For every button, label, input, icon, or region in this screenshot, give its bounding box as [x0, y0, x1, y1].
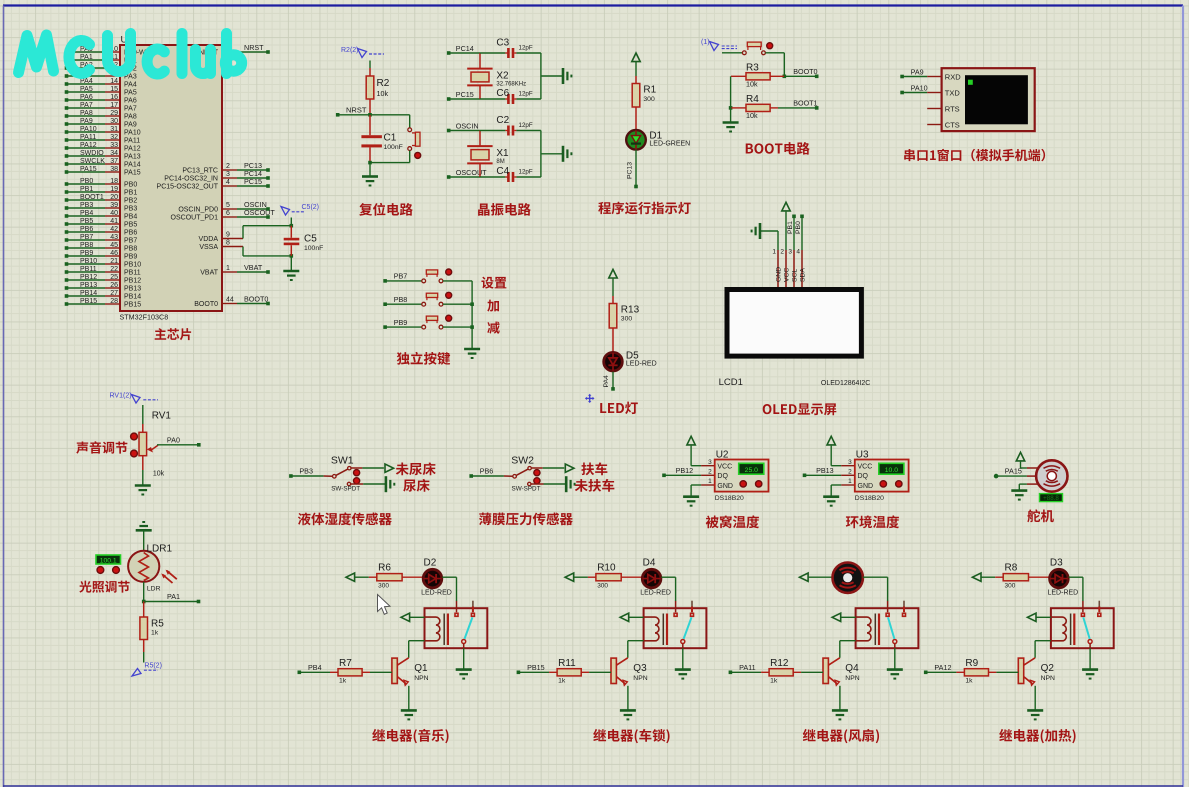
- svg-text:RV1(2): RV1(2): [110, 393, 132, 400]
- svg-text:41: 41: [110, 218, 118, 225]
- svg-text:PA15: PA15: [80, 166, 97, 173]
- svg-text:PA11: PA11: [739, 663, 756, 672]
- svg-text:PB1: PB1: [80, 186, 93, 193]
- svg-text:300: 300: [643, 96, 655, 103]
- svg-text:LED-RED: LED-RED: [421, 590, 452, 597]
- svg-text:PB10: PB10: [124, 262, 141, 269]
- svg-text:PA4: PA4: [124, 82, 137, 89]
- svg-text:PB14: PB14: [80, 290, 97, 297]
- svg-text:PB1: PB1: [124, 190, 137, 197]
- svg-text:NPN: NPN: [1041, 675, 1055, 682]
- svg-text:SW2: SW2: [511, 455, 534, 467]
- svg-text:44: 44: [226, 297, 234, 304]
- svg-text:PB14: PB14: [124, 294, 141, 301]
- svg-text:NRST: NRST: [244, 43, 264, 52]
- svg-text:C5(2): C5(2): [302, 204, 320, 211]
- svg-text:10.0: 10.0: [885, 467, 898, 474]
- svg-text:18: 18: [110, 178, 118, 185]
- svg-text:1k: 1k: [339, 677, 347, 684]
- svg-text:VBAT: VBAT: [244, 263, 263, 272]
- svg-text:PB9: PB9: [80, 250, 93, 257]
- svg-text:PB8: PB8: [80, 242, 93, 249]
- svg-text:PC15: PC15: [456, 90, 474, 99]
- svg-text:SW1: SW1: [331, 455, 354, 467]
- svg-text:R5(2): R5(2): [144, 663, 162, 670]
- svg-text:3: 3: [848, 459, 852, 466]
- svg-text:22: 22: [110, 266, 118, 273]
- svg-text:33: 33: [110, 142, 118, 149]
- svg-text:100.1: 100.1: [100, 558, 117, 565]
- svg-text:PA11: PA11: [80, 134, 96, 141]
- svg-text:PB4: PB4: [308, 663, 322, 672]
- svg-text:1: 1: [226, 265, 230, 272]
- svg-text:OSCIN: OSCIN: [456, 122, 479, 131]
- svg-text:PB4: PB4: [80, 210, 93, 217]
- svg-text:PB15: PB15: [527, 663, 545, 672]
- svg-text:2: 2: [226, 163, 230, 170]
- svg-text:19: 19: [110, 186, 118, 193]
- svg-text:PC13_RTC: PC13_RTC: [182, 168, 218, 175]
- svg-text:NPN: NPN: [633, 675, 647, 682]
- svg-text:42: 42: [110, 226, 118, 233]
- svg-text:9: 9: [226, 232, 230, 239]
- svg-text:2: 2: [848, 469, 852, 476]
- svg-text:RXD: RXD: [945, 72, 961, 81]
- svg-text:R2(2): R2(2): [341, 47, 359, 54]
- svg-text:OSCOUT: OSCOUT: [244, 208, 275, 217]
- svg-text:5: 5: [226, 202, 230, 209]
- svg-text:PB2: PB2: [124, 198, 137, 205]
- svg-text:45: 45: [110, 242, 118, 249]
- svg-text:PB11: PB11: [80, 266, 97, 273]
- svg-text:40: 40: [110, 210, 118, 217]
- svg-text:SW-SPDT: SW-SPDT: [331, 485, 360, 492]
- svg-text:300: 300: [597, 583, 608, 590]
- svg-text:GND: GND: [776, 267, 783, 282]
- svg-text:CTS: CTS: [945, 120, 960, 129]
- svg-text:C5: C5: [304, 234, 317, 245]
- svg-text:32: 32: [110, 134, 118, 141]
- svg-text:R13: R13: [621, 305, 640, 316]
- svg-text:3: 3: [708, 459, 712, 466]
- svg-text:BOOT0: BOOT0: [244, 295, 268, 304]
- svg-text:PA15: PA15: [1005, 467, 1022, 476]
- svg-text:OSCIN_PD0: OSCIN_PD0: [178, 207, 218, 214]
- svg-text:Q4: Q4: [845, 663, 859, 674]
- svg-text:PA8: PA8: [80, 110, 93, 117]
- svg-text:SWDIO: SWDIO: [80, 150, 104, 157]
- svg-text:C4: C4: [496, 166, 509, 177]
- svg-text:PA12: PA12: [934, 663, 951, 672]
- svg-text:PB0: PB0: [80, 178, 93, 185]
- svg-text:PB15: PB15: [124, 302, 141, 309]
- svg-text:VDDA: VDDA: [199, 236, 219, 243]
- svg-text:8: 8: [226, 240, 230, 247]
- svg-text:R3: R3: [746, 62, 759, 73]
- svg-text:34: 34: [110, 150, 118, 157]
- svg-text:25.0: 25.0: [745, 467, 758, 474]
- svg-text:OSCOUT_PD1: OSCOUT_PD1: [171, 215, 219, 222]
- svg-text:PB15: PB15: [80, 298, 97, 305]
- svg-text:PA7: PA7: [124, 106, 137, 113]
- svg-text:BOOT0: BOOT0: [793, 67, 817, 76]
- svg-text:43: 43: [110, 234, 118, 241]
- svg-text:VSSA: VSSA: [199, 244, 218, 251]
- svg-text:SWCLK: SWCLK: [80, 158, 105, 165]
- svg-text:PB12: PB12: [80, 274, 97, 281]
- svg-text:TXD: TXD: [945, 88, 961, 97]
- svg-text:21: 21: [110, 258, 118, 265]
- svg-text:6: 6: [226, 210, 230, 217]
- svg-text:STM32F103C8: STM32F103C8: [120, 313, 169, 322]
- svg-text:RV1: RV1: [152, 411, 172, 422]
- svg-text:PA9: PA9: [124, 122, 137, 129]
- svg-text:16: 16: [110, 94, 118, 101]
- svg-text:LDR1: LDR1: [147, 544, 173, 555]
- svg-text:PB6: PB6: [80, 226, 93, 233]
- svg-text:R11: R11: [558, 658, 576, 669]
- svg-text:Q2: Q2: [1041, 663, 1055, 674]
- svg-text:LCD1: LCD1: [719, 377, 743, 388]
- svg-text:12pF: 12pF: [519, 45, 533, 52]
- svg-text:PB11: PB11: [124, 270, 141, 277]
- svg-text:10k: 10k: [153, 471, 165, 478]
- svg-text:10k: 10k: [746, 111, 758, 120]
- svg-text:PC15-OSC32_OUT: PC15-OSC32_OUT: [157, 184, 219, 191]
- svg-text:X1: X1: [496, 148, 509, 159]
- svg-text:C1: C1: [384, 133, 397, 144]
- svg-text:R4: R4: [746, 94, 759, 105]
- svg-text:PB12: PB12: [676, 466, 694, 475]
- svg-text:2: 2: [780, 249, 784, 256]
- svg-text:BOOT1: BOOT1: [793, 99, 817, 108]
- svg-text:46: 46: [110, 250, 118, 257]
- svg-text:RTS: RTS: [945, 104, 960, 113]
- svg-text:30: 30: [110, 118, 118, 125]
- svg-text:PA0: PA0: [167, 435, 180, 444]
- svg-text:300: 300: [621, 316, 633, 323]
- svg-text:LED-RED: LED-RED: [640, 590, 671, 597]
- svg-text:14: 14: [110, 78, 118, 85]
- svg-text:PA8: PA8: [124, 114, 137, 121]
- svg-text:27: 27: [110, 290, 118, 297]
- svg-text:PB3: PB3: [80, 202, 93, 209]
- svg-text:PA14: PA14: [124, 162, 141, 169]
- svg-text:GND: GND: [858, 483, 874, 490]
- svg-text:32.768KHz: 32.768KHz: [496, 82, 526, 88]
- svg-text:VCC: VCC: [717, 464, 732, 471]
- svg-text:SDA: SDA: [800, 268, 807, 282]
- svg-text:PB6: PB6: [480, 467, 494, 476]
- svg-text:R8: R8: [1005, 563, 1018, 574]
- svg-text:12pF: 12pF: [519, 169, 533, 176]
- svg-text:U3: U3: [856, 450, 869, 461]
- svg-text:C6: C6: [496, 88, 509, 99]
- svg-text:PB8: PB8: [394, 295, 408, 304]
- svg-text:Q1: Q1: [414, 663, 428, 674]
- svg-text:PA9: PA9: [911, 67, 924, 76]
- svg-text:DQ: DQ: [717, 473, 728, 480]
- svg-text:NRST: NRST: [346, 106, 367, 115]
- svg-text:1k: 1k: [770, 677, 778, 684]
- svg-text:1k: 1k: [558, 677, 566, 684]
- svg-text:PA7: PA7: [80, 102, 93, 109]
- svg-text:PB13: PB13: [80, 282, 97, 289]
- svg-text:PA13: PA13: [124, 154, 141, 161]
- svg-text:GND: GND: [717, 483, 733, 490]
- svg-text:PB5: PB5: [80, 218, 93, 225]
- svg-text:R1: R1: [643, 85, 656, 96]
- svg-text:(1): (1): [701, 39, 710, 46]
- svg-text:PB12: PB12: [124, 278, 141, 285]
- svg-text:PA15: PA15: [124, 170, 141, 177]
- svg-text:+88.8: +88.8: [1043, 495, 1059, 502]
- svg-text:PB4: PB4: [124, 214, 137, 221]
- svg-text:25: 25: [110, 274, 118, 281]
- svg-text:8M: 8M: [496, 159, 504, 165]
- svg-text:PB6: PB6: [124, 230, 137, 237]
- svg-text:37: 37: [110, 158, 118, 165]
- svg-text:4: 4: [796, 249, 800, 256]
- svg-text:PB13: PB13: [816, 466, 834, 475]
- svg-text:PB5: PB5: [124, 222, 137, 229]
- svg-text:PB7: PB7: [394, 272, 408, 281]
- svg-text:PC15: PC15: [244, 177, 262, 186]
- svg-text:R2: R2: [377, 78, 390, 89]
- svg-text:PC13: PC13: [627, 162, 634, 179]
- svg-text:R10: R10: [597, 563, 616, 574]
- svg-text:PA6: PA6: [124, 98, 137, 105]
- svg-text:OLED12864I2C: OLED12864I2C: [821, 380, 870, 387]
- svg-text:PA1: PA1: [167, 592, 180, 601]
- svg-text:1: 1: [772, 249, 776, 256]
- svg-text:VCC: VCC: [858, 464, 873, 471]
- svg-text:PB10: PB10: [80, 258, 97, 265]
- svg-text:D4: D4: [643, 558, 656, 569]
- svg-text:LED-GREEN: LED-GREEN: [649, 141, 690, 148]
- svg-text:PC14: PC14: [456, 44, 474, 53]
- svg-text:PB1: PB1: [787, 221, 794, 234]
- svg-text:10k: 10k: [377, 89, 389, 98]
- svg-text:PB9: PB9: [124, 254, 137, 261]
- svg-text:31: 31: [110, 126, 118, 133]
- svg-text:1k: 1k: [965, 677, 973, 684]
- svg-text:BOOT1: BOOT1: [80, 194, 104, 201]
- svg-text:SCL: SCL: [792, 269, 799, 282]
- svg-text:12pF: 12pF: [519, 122, 533, 129]
- svg-text:PB3: PB3: [124, 206, 137, 213]
- svg-text:C2: C2: [496, 115, 509, 126]
- svg-text:1: 1: [708, 478, 712, 485]
- svg-text:28: 28: [110, 298, 118, 305]
- svg-text:20: 20: [110, 194, 118, 201]
- svg-text:PA11: PA11: [124, 138, 140, 145]
- svg-text:3: 3: [226, 171, 230, 178]
- svg-text:R9: R9: [965, 658, 978, 669]
- svg-text:PB0: PB0: [124, 182, 137, 189]
- svg-text:BOOT0: BOOT0: [194, 301, 218, 308]
- svg-text:PA6: PA6: [80, 94, 93, 101]
- svg-text:29: 29: [110, 110, 118, 117]
- svg-text:17: 17: [110, 102, 118, 109]
- svg-text:26: 26: [110, 282, 118, 289]
- svg-text:PB0: PB0: [795, 221, 802, 234]
- svg-text:1k: 1k: [151, 630, 159, 637]
- svg-text:12pF: 12pF: [519, 91, 533, 98]
- svg-text:PA12: PA12: [124, 146, 141, 153]
- svg-text:D2: D2: [424, 558, 437, 569]
- svg-text:Q3: Q3: [633, 663, 647, 674]
- svg-text:PA10: PA10: [911, 83, 928, 92]
- svg-text:PA1: PA1: [80, 54, 93, 61]
- svg-text:DQ: DQ: [858, 473, 869, 480]
- svg-text:39: 39: [110, 202, 118, 209]
- svg-text:PA9: PA9: [80, 118, 93, 125]
- svg-text:PB8: PB8: [124, 246, 137, 253]
- svg-text:300: 300: [378, 583, 389, 590]
- svg-text:PB7: PB7: [124, 238, 137, 245]
- svg-text:PA5: PA5: [124, 90, 137, 97]
- svg-text:PA10: PA10: [80, 126, 97, 133]
- svg-text:PA12: PA12: [80, 142, 97, 149]
- svg-text:PB9: PB9: [394, 318, 408, 327]
- svg-text:DS18B20: DS18B20: [855, 495, 884, 502]
- svg-text:100nF: 100nF: [384, 144, 403, 151]
- svg-text:4: 4: [226, 179, 230, 186]
- svg-text:100nF: 100nF: [304, 245, 323, 252]
- svg-text:SW-SPDT: SW-SPDT: [512, 485, 541, 492]
- svg-text:2: 2: [708, 469, 712, 476]
- svg-text:PB7: PB7: [80, 234, 93, 241]
- svg-text:DS18B20: DS18B20: [715, 495, 744, 502]
- svg-text:R7: R7: [339, 658, 352, 669]
- svg-text:PB13: PB13: [124, 286, 141, 293]
- svg-text:PA5: PA5: [80, 86, 93, 93]
- svg-text:R12: R12: [770, 658, 789, 669]
- svg-text:15: 15: [110, 86, 118, 93]
- svg-text:PB3: PB3: [299, 467, 313, 476]
- svg-text:LDR: LDR: [147, 586, 161, 593]
- svg-text:PC14-OSC32_IN: PC14-OSC32_IN: [164, 176, 218, 183]
- svg-text:NPN: NPN: [414, 675, 428, 682]
- svg-text:3: 3: [788, 249, 792, 256]
- svg-text:VCC: VCC: [784, 268, 791, 282]
- svg-text:VBAT: VBAT: [200, 270, 218, 277]
- svg-text:C3: C3: [496, 38, 509, 49]
- svg-text:R5: R5: [151, 619, 164, 630]
- svg-text:OSCOUT: OSCOUT: [456, 168, 487, 177]
- svg-text:NPN: NPN: [845, 675, 859, 682]
- svg-text:38: 38: [110, 166, 118, 173]
- svg-text:X2: X2: [496, 71, 509, 82]
- svg-text:R6: R6: [378, 563, 391, 574]
- svg-text:10k: 10k: [746, 79, 758, 88]
- svg-text:LED-RED: LED-RED: [1048, 590, 1079, 597]
- svg-text:D3: D3: [1050, 558, 1063, 569]
- svg-text:LED-RED: LED-RED: [626, 361, 657, 368]
- svg-text:PA4: PA4: [603, 375, 610, 388]
- svg-text:U2: U2: [716, 450, 729, 461]
- svg-text:1: 1: [848, 478, 852, 485]
- svg-text:300: 300: [1005, 583, 1016, 590]
- svg-text:PA10: PA10: [124, 130, 141, 137]
